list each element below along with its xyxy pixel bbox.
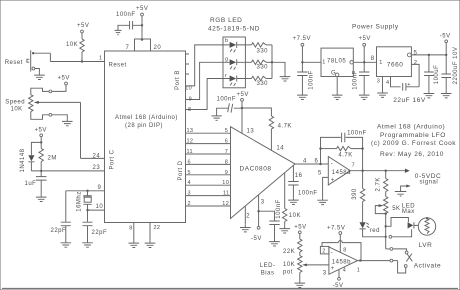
svg-text:-5V: -5V (440, 34, 451, 40)
svg-text:5: 5 (318, 170, 322, 176)
svg-text:Max: Max (402, 209, 415, 215)
svg-text:9: 9 (98, 185, 102, 191)
svg-text:1: 1 (357, 267, 360, 273)
svg-text:g: g (225, 57, 228, 63)
svg-text:11: 11 (223, 191, 229, 197)
svg-text:4: 4 (343, 267, 346, 273)
svg-text:1458b: 1458b (332, 259, 351, 265)
svg-text:3: 3 (323, 271, 327, 277)
svg-text:12: 12 (187, 139, 194, 145)
svg-text:+5V: +5V (294, 225, 306, 231)
svg-text:Port C: Port C (110, 149, 116, 169)
svg-text:10K: 10K (11, 107, 23, 113)
svg-text:2: 2 (246, 214, 250, 220)
svg-text:5: 5 (188, 170, 191, 176)
svg-text:-5V: -5V (251, 236, 262, 242)
svg-text:100nF: 100nF (217, 96, 237, 102)
svg-text:6: 6 (225, 139, 228, 145)
svg-text:3: 3 (261, 199, 265, 205)
svg-text:red: red (370, 228, 380, 234)
svg-text:78L05: 78L05 (327, 59, 346, 65)
svg-text:330: 330 (257, 81, 269, 87)
svg-text:+: + (331, 266, 335, 272)
svg-text:(28 pin DIP): (28 pin DIP) (125, 123, 163, 129)
svg-text:DAC0808: DAC0808 (240, 166, 272, 173)
svg-text:2: 2 (322, 249, 325, 255)
svg-text:b: b (225, 38, 228, 44)
svg-text:6: 6 (315, 158, 319, 164)
svg-text:+7.5V: +7.5V (293, 36, 311, 42)
svg-text:+5V: +5V (77, 23, 89, 29)
svg-text:8: 8 (188, 107, 191, 113)
svg-text:13: 13 (187, 128, 194, 134)
svg-text:100nF: 100nF (276, 199, 282, 219)
svg-text:100uF: 100uF (434, 65, 440, 85)
svg-text:20: 20 (154, 45, 162, 51)
svg-text:+5V: +5V (58, 76, 70, 82)
svg-text:10: 10 (222, 180, 229, 186)
svg-text:Bias: Bias (261, 270, 275, 276)
svg-text:9: 9 (189, 96, 192, 102)
svg-text:6: 6 (188, 159, 191, 165)
svg-text:Rev: May 26, 2010: Rev: May 26, 2010 (380, 151, 444, 158)
svg-text:100nF: 100nF (298, 190, 318, 196)
svg-text:LVR: LVR (419, 242, 433, 249)
svg-text:Activate: Activate (414, 262, 442, 269)
svg-text:8: 8 (343, 247, 346, 253)
svg-text:Programmable LFO: Programmable LFO (380, 132, 446, 139)
svg-text:16Mhz: 16Mhz (77, 191, 83, 212)
svg-text:-: - (331, 250, 334, 256)
svg-text:4.7K: 4.7K (278, 124, 292, 130)
svg-text:22pF: 22pF (92, 230, 108, 236)
svg-text:8: 8 (225, 159, 228, 165)
svg-text:4.7K: 4.7K (338, 152, 352, 158)
svg-text:22uF 16V: 22uF 16V (393, 97, 426, 104)
svg-text:Reset: Reset (109, 63, 127, 69)
svg-text:2M: 2M (48, 156, 57, 162)
svg-text:22K: 22K (283, 249, 295, 255)
svg-text:23: 23 (93, 165, 101, 171)
svg-text:2200uF 10V: 2200uF 10V (453, 47, 459, 85)
svg-text:-: - (331, 161, 334, 167)
svg-text:+5V: +5V (359, 36, 371, 42)
svg-text:+: + (331, 178, 335, 184)
svg-text:+5V: +5V (136, 6, 148, 12)
svg-text:425-1819-5-ND: 425-1819-5-ND (208, 26, 260, 33)
svg-text:Atmel 168 (Arduino): Atmel 168 (Arduino) (115, 115, 178, 121)
svg-text:1: 1 (379, 60, 382, 66)
svg-text:22: 22 (154, 225, 161, 231)
svg-text:1: 1 (99, 56, 102, 62)
svg-text:330: 330 (257, 49, 269, 55)
svg-text:3: 3 (377, 79, 380, 85)
svg-text:8: 8 (371, 56, 375, 62)
svg-text:10K: 10K (283, 262, 295, 268)
svg-text:2: 2 (188, 201, 191, 207)
svg-text:16: 16 (295, 173, 303, 179)
svg-text:7: 7 (352, 162, 355, 168)
svg-text:100nF: 100nF (309, 70, 315, 90)
svg-text:4: 4 (188, 180, 191, 186)
svg-text:Power Supply: Power Supply (352, 24, 399, 31)
svg-text:1458a: 1458a (332, 170, 351, 176)
svg-text:Port D: Port D (178, 160, 184, 180)
svg-text:10: 10 (96, 204, 104, 210)
svg-text:7: 7 (225, 149, 228, 155)
svg-text:10K: 10K (289, 213, 301, 219)
svg-text:+5V: +5V (35, 128, 47, 134)
svg-text:2: 2 (414, 60, 417, 66)
svg-text:+7.5V: +7.5V (327, 225, 345, 231)
svg-text:LED-: LED- (260, 263, 276, 269)
svg-text:8: 8 (129, 226, 132, 232)
svg-text:+: + (407, 82, 411, 88)
svg-text:Port B: Port B (175, 70, 181, 90)
svg-text:Reset: Reset (5, 60, 23, 66)
svg-text:r: r (225, 73, 227, 79)
svg-text:390: 390 (352, 188, 358, 200)
svg-text:12: 12 (222, 201, 229, 207)
svg-text:5: 5 (414, 50, 418, 56)
svg-text:4: 4 (303, 158, 307, 164)
svg-text:11: 11 (187, 149, 193, 155)
svg-text:100nF: 100nF (116, 12, 136, 18)
svg-text:330: 330 (257, 65, 269, 71)
svg-text:+5V: +5V (237, 92, 249, 98)
svg-text:1: 1 (322, 59, 325, 65)
svg-text:13: 13 (247, 128, 255, 134)
svg-text:4: 4 (386, 80, 389, 86)
svg-text:7: 7 (126, 45, 130, 51)
svg-text:signal: signal (420, 180, 439, 186)
svg-text:1uF: 1uF (25, 181, 37, 187)
svg-text:7660: 7660 (387, 62, 404, 69)
svg-text:3: 3 (188, 191, 191, 197)
svg-text:10: 10 (185, 86, 192, 92)
svg-text:1N4148: 1N4148 (20, 148, 26, 172)
svg-text:100nF: 100nF (352, 70, 358, 90)
svg-text:5: 5 (225, 128, 228, 134)
svg-text:(c) 2009 G. Forrest Cook: (c) 2009 G. Forrest Cook (371, 140, 456, 147)
svg-text:5K: 5K (392, 206, 400, 212)
svg-text:9: 9 (225, 170, 228, 176)
svg-text:pot: pot (283, 270, 293, 276)
svg-text:10K: 10K (66, 42, 78, 48)
svg-text:2.7K: 2.7K (375, 177, 381, 191)
svg-text:22pF: 22pF (51, 228, 67, 234)
svg-text:14: 14 (276, 146, 284, 152)
svg-text:Atmel 168 (Arduino): Atmel 168 (Arduino) (377, 124, 445, 131)
svg-text:100nF: 100nF (347, 130, 367, 136)
svg-text:RGB LED: RGB LED (210, 17, 242, 24)
svg-text:Speed: Speed (5, 100, 25, 106)
